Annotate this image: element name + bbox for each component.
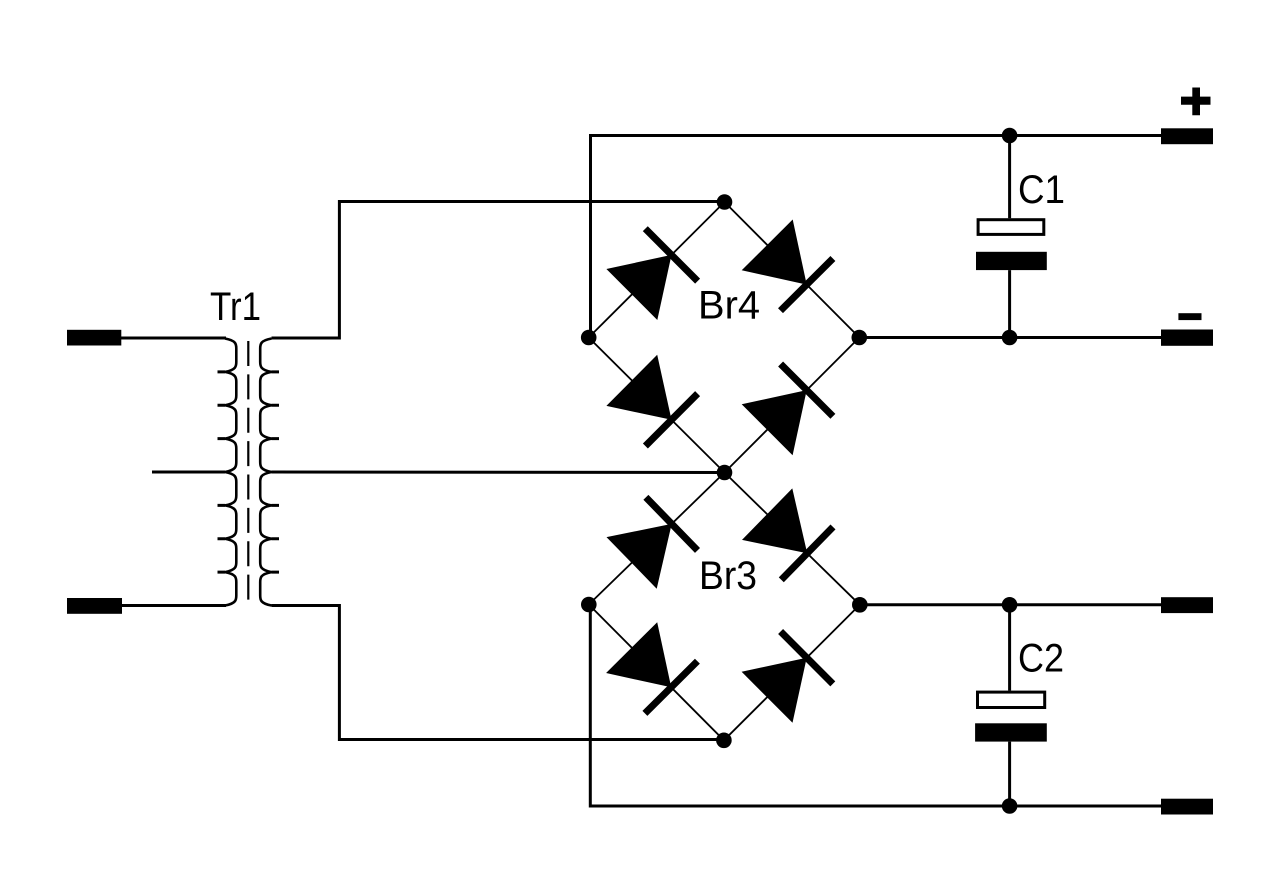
bridge Br4 diamond edges — [589, 202, 860, 473]
transformer Tr1 left winding — [225, 339, 236, 606]
terminal +V (top right) — [1161, 128, 1213, 144]
node junction Br3 left — [581, 597, 597, 613]
capacitor C2 negative plate (filled) — [975, 723, 1047, 741]
wire minus rail (Br4 right vertex to - terminal) — [859, 336, 1161, 339]
wire secondary top to Br4 top (up and over) — [272, 202, 725, 339]
capacitor C1 negative plate (filled) — [976, 252, 1047, 270]
svg-text:Tr1: Tr1 — [210, 285, 261, 329]
svg-text:C1: C1 — [1018, 168, 1065, 212]
diode D4 (Br4 bottom-right, arrow to right) — [742, 390, 807, 455]
capacitor C2 top lead — [1008, 605, 1011, 691]
diode D6 (Br3 top-right, arrow to right) — [742, 488, 807, 553]
diode D7 (Br3 bottom-left, arrow to bottom) — [606, 622, 671, 687]
wire center tap to bridge junction — [272, 471, 725, 475]
capacitor C1 positive plate (outlined) — [978, 220, 1044, 235]
transformer Tr1 right winding cusp ticks — [272, 372, 280, 572]
terminal out4 (bottom right) — [1161, 799, 1213, 815]
node junction Br4 right — [852, 330, 868, 346]
svg-text:Br4: Br4 — [698, 284, 760, 328]
capacitor C2 positive plate (outlined) — [978, 692, 1045, 707]
node junction Br3 rail / C2 — [1002, 597, 1018, 613]
node junction Br3 bottom — [716, 733, 732, 749]
node junction Br4 top — [717, 194, 733, 210]
transformer Tr1 right winding — [260, 339, 271, 606]
wire center tap left stub — [152, 471, 225, 474]
bridge Br3 diamond edges — [589, 473, 860, 741]
terminal P1 (primary top-left) — [67, 330, 121, 346]
diode D1 (Br4 top-left, arrow to top) — [606, 255, 671, 320]
terminal P2 (primary bottom-left) — [67, 598, 122, 614]
wire P1 to transformer primary top — [121, 337, 226, 340]
capacitor C2 bottom lead — [1008, 742, 1011, 806]
wire secondary bottom to Br3 bottom (down and over) — [272, 606, 724, 740]
wire P2 to transformer primary bottom — [122, 604, 226, 607]
terminal out3 (third right) — [1161, 597, 1213, 613]
wire Br3 right vertex to third terminal — [860, 603, 1161, 606]
transformer Tr1 left winding cusp ticks — [218, 372, 226, 572]
minus sign (- output) — [1178, 313, 1201, 320]
svg-text:Br3: Br3 — [699, 554, 757, 598]
capacitor C1 bottom lead — [1008, 270, 1011, 337]
diode D3 (Br4 bottom-left, arrow to bottom) — [606, 355, 671, 420]
transformer Tr1 core (dashed) — [247, 341, 249, 602]
capacitor C1 top lead — [1008, 136, 1011, 219]
terminal -V (second right) — [1161, 330, 1213, 346]
wire bottom rail (Br3 left vertex down, right to fourth terminal) — [589, 605, 1161, 807]
node junction top rail / C1 — [1002, 128, 1018, 144]
plus sign (+ output) — [1181, 88, 1211, 116]
node junction bottom rail / C2 — [1002, 798, 1018, 814]
node junction shared center tap — [717, 465, 733, 481]
diode D2 (Br4 top-right, arrow to right) — [742, 220, 807, 285]
svg-text:C2: C2 — [1018, 637, 1064, 681]
node junction minus rail / C1 — [1002, 330, 1018, 346]
diode D5 (Br3 top-left, arrow to top) — [607, 524, 672, 589]
node junction Br3 right — [852, 597, 868, 613]
wire top rail (Br4 left vertex up, right to + terminal) — [589, 136, 1161, 338]
diode D8 (Br3 bottom-right, arrow to right) — [742, 658, 807, 723]
node junction Br4 left — [581, 330, 597, 346]
